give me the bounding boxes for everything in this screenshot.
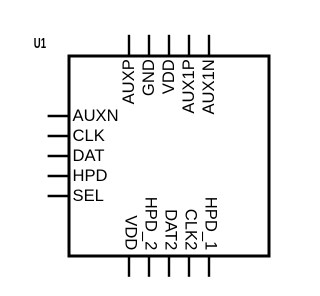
svg-text:CLK: CLK bbox=[73, 126, 105, 145]
svg-text:VDD: VDD bbox=[159, 59, 178, 94]
svg-text:CLK2: CLK2 bbox=[181, 209, 200, 251]
svg-text:AUX1P: AUX1P bbox=[179, 59, 198, 113]
svg-text:HPD_2: HPD_2 bbox=[141, 197, 160, 251]
svg-text:GND: GND bbox=[139, 59, 158, 96]
svg-text:AUXP: AUXP bbox=[119, 59, 138, 104]
svg-text:AUX1N: AUX1N bbox=[199, 59, 218, 114]
svg-text:AUXN: AUXN bbox=[73, 106, 119, 125]
svg-text:HPD_1: HPD_1 bbox=[201, 197, 220, 251]
svg-text:DAT: DAT bbox=[73, 146, 105, 165]
svg-text:VDD: VDD bbox=[121, 215, 140, 250]
svg-text:HPD: HPD bbox=[73, 166, 108, 185]
svg-text:SEL: SEL bbox=[73, 186, 104, 205]
svg-text:U1: U1 bbox=[34, 35, 46, 52]
svg-text:DAT2: DAT2 bbox=[161, 209, 180, 250]
